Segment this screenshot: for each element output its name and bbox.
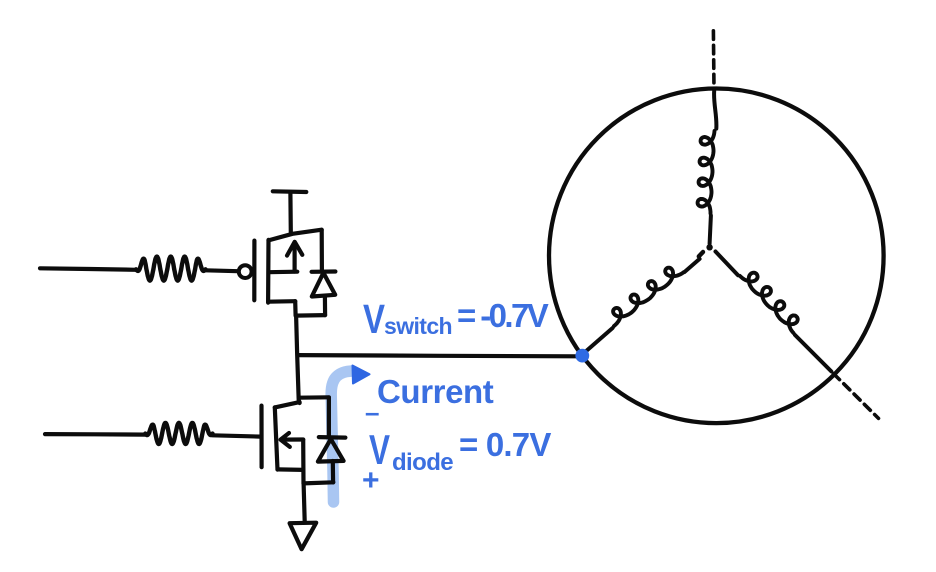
resistor R1 (top gate) — [136, 257, 206, 281]
wire R2 to NMOS gate — [213, 435, 261, 436]
PMOS Q1 channel/body left edge — [266, 240, 271, 303]
star point dot — [706, 244, 712, 250]
wire to ground — [304, 483, 305, 521]
diode D1 lower lead — [323, 296, 327, 315]
wire switch node vertical — [296, 316, 300, 403]
diode D2 triangle — [318, 439, 344, 462]
NMOS Q2 gate bar — [259, 406, 263, 468]
NMOS Q2 body bottom edge — [278, 467, 304, 472]
NMOS Q2 drain top bar — [299, 395, 329, 400]
resistor R2 (bottom gate) — [145, 423, 212, 444]
NMOS Q2 source lead — [301, 470, 305, 483]
wire circle top to winding A — [714, 91, 716, 129]
PMOS Q1 inner source stub — [269, 270, 298, 275]
NMOS Q2 body left edge — [275, 407, 278, 469]
wire star point to winding C — [716, 252, 739, 276]
current highlight path (light blue) — [331, 371, 352, 502]
PMOS Q1 source step — [293, 301, 298, 315]
NMOS Q2 body top edge — [275, 402, 300, 407]
supply rail bar — [273, 189, 307, 194]
wire Q1 drain to supply — [288, 193, 293, 232]
dashed shaft line bottom-right — [834, 374, 879, 419]
wire top gate input — [40, 268, 136, 270]
NMOS Q2 bottom joining bar — [304, 482, 334, 483]
svg-text:Current: Current — [377, 373, 494, 410]
wire R1 to gate bubble — [206, 268, 238, 273]
terminal node (blue) — [575, 349, 589, 363]
PMOS Q1 body right edge upper — [320, 230, 324, 271]
motor stator circle — [549, 89, 884, 424]
svg-text:diode: diode — [392, 449, 453, 476]
svg-text:= -0.7V: = -0.7V — [457, 297, 549, 334]
PMOS Q1 channel arrow shaft — [293, 244, 297, 271]
NMOS Q2 inner source stub — [301, 440, 305, 470]
PMOS Q1 body bottom edge — [268, 299, 295, 304]
wire star point to winding B — [685, 259, 700, 272]
PMOS gate bubble — [239, 265, 252, 278]
current arrowhead — [353, 366, 370, 384]
PMOS Q1 body top edge — [269, 230, 322, 241]
wire winding A to star point — [710, 216, 711, 244]
NMOS Q2 channel arrow head — [281, 433, 290, 447]
dashed shaft line top — [712, 31, 716, 89]
diode D1 triangle — [312, 273, 335, 297]
wire star point to winding B (upper dash) — [699, 252, 703, 256]
wire winding C to circle edge — [795, 335, 831, 371]
PMOS Q1 channel arrow head — [287, 242, 302, 256]
svg-text:–: – — [365, 397, 379, 427]
diode D2 lower lead — [331, 461, 336, 482]
NMOS Q2 body right edge upper — [327, 398, 331, 437]
diode D2 cathode bar — [319, 435, 346, 440]
diode D1 cathode bar — [312, 269, 336, 273]
svg-text:= 0.7V: = 0.7V — [459, 426, 551, 463]
wire winding B to terminal node — [584, 328, 613, 353]
winding C (lower-right coil) — [740, 273, 798, 333]
svg-text:+: + — [362, 464, 380, 497]
NMOS Q2 channel arrow shaft — [281, 437, 303, 441]
wire switch node to motor — [298, 355, 578, 356]
svg-text:switch: switch — [384, 313, 452, 339]
PMOS Q1 bottom joining bar — [296, 313, 326, 318]
PMOS Q1 gate bar — [252, 241, 256, 301]
winding B (lower-left coil) — [613, 268, 683, 326]
winding A (top coil) — [698, 131, 715, 214]
ground symbol — [290, 523, 317, 550]
svg-text:V: V — [363, 296, 386, 342]
wire bottom gate input — [45, 432, 145, 437]
